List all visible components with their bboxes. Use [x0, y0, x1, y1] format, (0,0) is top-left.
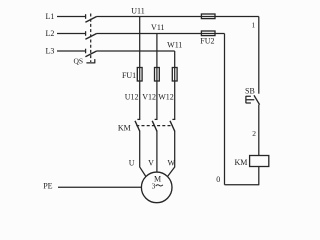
contactor KM pole 2 terminal tick: [155, 118, 158, 120]
contactor KM pole 2 blade: [152, 121, 157, 132]
wire control circuit right vertical upper: [258, 17, 260, 94]
svg-text:KM: KM: [118, 124, 131, 133]
wire L1 phase line right segment to control branch: [97, 16, 259, 18]
svg-text:L2: L2: [46, 29, 55, 38]
contactor KM interlock dashed line: [136, 125, 173, 127]
fuse FU1 pole 3 body: [172, 68, 177, 82]
switch QS pole 2 terminal tick: [85, 31, 87, 36]
wire W phase to motor: [167, 131, 174, 177]
svg-text:U12: U12: [125, 93, 139, 102]
contactor KM pole 1 terminal tick: [137, 118, 140, 120]
wire L2 phase line left segment: [57, 33, 85, 35]
svg-text:2: 2: [252, 129, 256, 138]
wire node U11 vertical drop: [139, 17, 141, 120]
svg-text:V12: V12: [142, 93, 156, 102]
svg-text:SB: SB: [245, 87, 255, 96]
fuse FU1 pole 2 body: [155, 68, 160, 82]
fuse FU2 upper body: [201, 14, 215, 19]
switch QS pole 3 blade: [85, 51, 96, 57]
wire L3 phase line right segment: [97, 50, 175, 52]
svg-text:FU2: FU2: [200, 37, 214, 46]
svg-text:W11: W11: [167, 40, 182, 49]
svg-text:U11: U11: [131, 7, 144, 16]
svg-text:FU1: FU1: [122, 71, 136, 80]
wire L2 phase line right segment: [97, 33, 225, 35]
svg-text:U: U: [129, 158, 135, 167]
wire control circuit right vertical middle: [258, 105, 260, 156]
svg-text:KM: KM: [235, 158, 248, 167]
switch QS operator handle: [86, 59, 94, 63]
svg-text:V: V: [148, 158, 154, 167]
coil KM body: [250, 156, 269, 167]
pushbutton SB actuator: [246, 96, 254, 103]
wire control circuit left vertical: [224, 34, 226, 185]
fuse FU2 lower body: [201, 31, 215, 36]
svg-text:W12: W12: [158, 93, 174, 102]
svg-text:1: 1: [252, 20, 256, 29]
wire PE line: [58, 186, 141, 188]
wire node V11 vertical drop: [156, 34, 158, 120]
svg-text:QS: QS: [74, 56, 84, 65]
contactor KM pole 1 blade: [135, 121, 140, 132]
pushbutton SB blade: [254, 95, 260, 104]
contactor KM pole 3 blade: [170, 121, 175, 132]
svg-text:0: 0: [216, 175, 220, 184]
switch QS pole 1 blade: [85, 17, 96, 23]
motor M1 circle: [141, 172, 172, 203]
wire L1 phase line left segment: [57, 16, 85, 18]
svg-text:V11: V11: [151, 23, 164, 32]
wire L3 phase line left segment: [57, 50, 85, 52]
svg-text:L1: L1: [46, 12, 55, 21]
switch QS pole 3 terminal tick: [85, 49, 87, 54]
fuse FU1 pole 1 body: [137, 68, 142, 82]
wire control circuit right vertical lower: [258, 167, 260, 185]
wire control circuit bottom return: [225, 184, 260, 186]
svg-text:3: 3: [152, 181, 156, 190]
switch QS pole 1 terminal tick: [85, 14, 87, 19]
wire node W11 vertical drop: [174, 51, 176, 119]
wire V phase to motor: [156, 131, 158, 172]
switch QS interlock dashed line: [90, 14, 92, 63]
wire U phase to motor: [140, 131, 146, 177]
svg-text:L3: L3: [46, 47, 55, 56]
switch QS pole 2 blade: [85, 34, 96, 40]
contactor KM pole 3 terminal tick: [172, 118, 175, 120]
svg-text:PE: PE: [43, 181, 52, 190]
svg-text:W: W: [168, 158, 176, 167]
